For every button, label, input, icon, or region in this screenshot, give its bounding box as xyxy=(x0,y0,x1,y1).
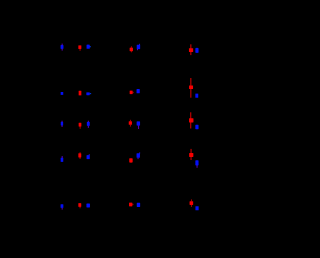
molecule 14: atom N1 xyxy=(137,203,140,207)
molecule 2: atom O1 xyxy=(130,46,133,52)
molecule 7: atom N2 xyxy=(87,121,90,128)
molecule 10: atom N1 xyxy=(61,156,64,162)
molecule 5: atom N1 xyxy=(137,89,140,93)
molecule 3: bond C=O (red half) xyxy=(190,44,191,55)
molecule 9: atom N1 xyxy=(195,125,198,130)
molecule 2: atom N1 xyxy=(137,44,140,50)
molecule 10: atom O1 xyxy=(78,152,81,159)
molecule 10: atom N2 xyxy=(87,154,90,159)
molecule 12: atom N1 xyxy=(195,160,198,168)
molecule 1: atom N2 xyxy=(87,45,91,49)
molecule 12: bond C=O (red half) xyxy=(191,149,192,160)
molecule 4: atom N1 xyxy=(61,92,64,95)
molecule 11: atom N1 xyxy=(137,152,141,159)
molecule 3: atom N1 xyxy=(195,48,198,53)
molecule 4: atom O1 xyxy=(79,91,82,96)
molecule 9: atom O1 xyxy=(189,118,193,122)
molecule 7: atom O1 xyxy=(79,123,82,129)
molecule 6: atom O1 xyxy=(189,86,193,90)
molecule 1: atom N1 xyxy=(61,44,64,51)
molecule 4: atom N2 xyxy=(86,92,91,95)
molecule 13: atom N2 xyxy=(86,204,90,208)
molecule 6: bond O-C=O (red halves) xyxy=(190,78,191,98)
molecule 12: atom O1 xyxy=(189,153,193,157)
molecule 13: atom N1 xyxy=(61,204,64,209)
molecule 9: bond C=O (red half) xyxy=(190,112,191,128)
molecule 13: atom O1 xyxy=(78,203,81,208)
molecule 11: atom O1 xyxy=(129,158,132,162)
molecule 7: atom N1 xyxy=(61,121,63,127)
molecule 1: atom O1 xyxy=(78,45,81,50)
molecule 15: atom O1 xyxy=(190,199,194,207)
molecule 6: atom N1 xyxy=(195,94,198,98)
molecule 8: atom N1 xyxy=(137,121,140,129)
molecule 15: atom N1 xyxy=(195,206,198,210)
molecule 14: atom O1 xyxy=(129,203,133,207)
molecule 8: atom O1 xyxy=(129,120,132,127)
molecule 5: atom O1 xyxy=(130,91,134,95)
molecule 3: atom O1 xyxy=(189,48,193,52)
